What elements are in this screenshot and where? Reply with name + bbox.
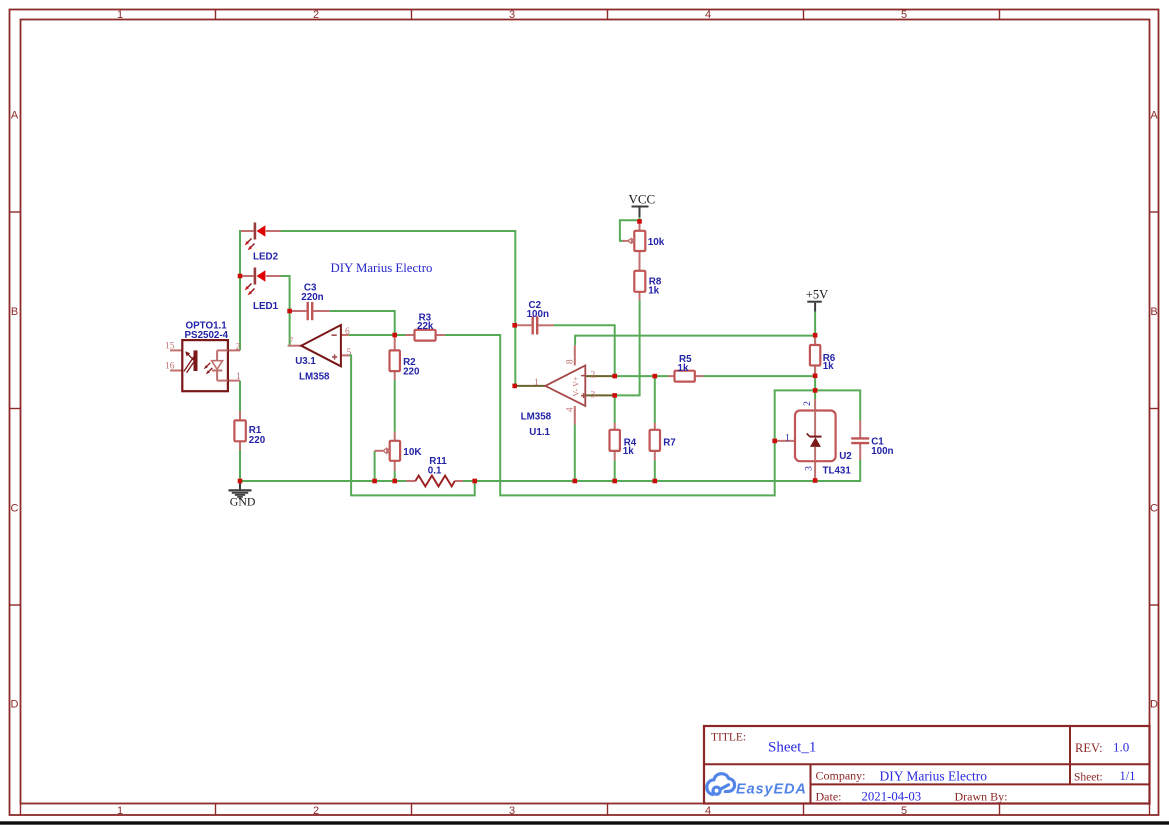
svg-text:10k: 10k — [648, 237, 665, 248]
wire pot 10k top-to-wiper loop — [620, 220, 640, 241]
wire C3 right to R3 node — [330, 311, 395, 335]
resistor R3 — [406, 330, 445, 341]
frame ruler letters left — [11, 110, 19, 711]
svg-text:10K: 10K — [403, 447, 422, 458]
title block outline — [704, 726, 1150, 804]
wire U1.1 pin4 to ground rail — [574, 425, 576, 481]
wire R5 right to R6 bottom node — [704, 375, 816, 377]
wire opto pin1 down to R1 — [239, 381, 241, 411]
svg-text:U1.1: U1.1 — [529, 427, 550, 438]
resistor R1 — [234, 411, 245, 450]
svg-text:U3.1: U3.1 — [295, 356, 316, 367]
frame ruler numbers bottom — [117, 805, 907, 817]
svg-text:1.0: 1.0 — [1113, 740, 1129, 755]
capacitor C2 — [515, 316, 554, 334]
svg-text:2021-04-03: 2021-04-03 — [862, 790, 922, 804]
op-amp U1.1 — [515, 345, 614, 424]
title block divider row1 — [704, 763, 1150, 765]
resistor R11 — [406, 476, 463, 487]
wire ground rail left — [240, 480, 410, 482]
svg-text:1: 1 — [117, 805, 123, 817]
wire U1.1 pin2 node to R5 — [615, 375, 668, 377]
svg-text:3: 3 — [509, 805, 515, 817]
svg-text:Sheet:: Sheet: — [1074, 772, 1103, 784]
svg-text:1k: 1k — [648, 286, 659, 297]
svg-text:5: 5 — [347, 348, 352, 358]
svg-text:3: 3 — [591, 390, 596, 400]
potentiometer 10k — [623, 222, 646, 271]
wire R4 bottom to ground rail — [614, 460, 616, 481]
svg-text:D: D — [11, 699, 19, 711]
title block divider logo column — [810, 764, 812, 803]
title block divider date row — [811, 783, 1150, 785]
resistor R5 — [668, 371, 704, 382]
ground symbol GND — [229, 483, 256, 509]
svg-text:1: 1 — [117, 9, 123, 21]
svg-text:4: 4 — [705, 9, 711, 21]
wire U1.1 pin8 to +5V rail — [575, 336, 815, 346]
wire R4 top — [614, 395, 616, 423]
svg-text:1: 1 — [236, 372, 241, 382]
wire VCC to pot 10k node — [639, 217, 641, 221]
svg-text:VCC: VCC — [629, 192, 656, 207]
wire LED2 anode to U1.1 pin1 column — [281, 231, 516, 386]
svg-text:TITLE:: TITLE: — [711, 732, 746, 744]
shunt regulator U2 TL431 — [775, 399, 836, 479]
wire +5V down to R6 — [814, 311, 816, 345]
wire R3 right to TL431 ref loop — [445, 335, 860, 495]
wire ground rail right — [461, 460, 861, 482]
svg-text:DIY Marius Electro: DIY Marius Electro — [331, 261, 433, 275]
svg-text:3: 3 — [804, 466, 814, 471]
wire R6 bottom to TL431 pin2 node — [814, 366, 816, 399]
svg-text:Drawn By:: Drawn By: — [955, 790, 1008, 804]
wire LED1 anode to C3 node column — [281, 276, 290, 346]
svg-text:EasyEDA: EasyEDA — [736, 782, 807, 798]
svg-text:2: 2 — [313, 805, 319, 817]
svg-text:D: D — [1150, 699, 1158, 711]
svg-text:U2: U2 — [839, 451, 852, 462]
svg-text:0.1: 0.1 — [428, 465, 442, 476]
svg-text:TL431: TL431 — [823, 466, 852, 477]
svg-text:4: 4 — [705, 805, 711, 817]
capacitor C1 — [851, 421, 869, 461]
svg-text:1: 1 — [785, 434, 790, 444]
svg-text:2: 2 — [313, 9, 319, 21]
svg-text:100n: 100n — [527, 309, 549, 320]
svg-text:7: 7 — [289, 337, 294, 347]
svg-text:1k: 1k — [678, 363, 689, 374]
svg-text:DIY Marius Electro: DIY Marius Electro — [880, 769, 988, 784]
capacitor C3 — [290, 302, 330, 320]
svg-text:PS2502-4: PS2502-4 — [185, 330, 229, 341]
svg-text:REV:: REV: — [1075, 741, 1103, 755]
svg-text:220n: 220n — [301, 292, 323, 303]
EasyEDA logo cloud — [707, 774, 735, 795]
resistor R7 — [650, 423, 660, 460]
svg-text:2: 2 — [803, 401, 813, 406]
svg-text:LED1: LED1 — [253, 301, 279, 312]
svg-text:GND: GND — [230, 495, 256, 509]
bottom black bar — [0, 821, 1169, 824]
svg-text:C: C — [11, 503, 19, 515]
svg-text:15: 15 — [165, 341, 175, 351]
resistor R2 — [390, 336, 400, 380]
svg-text:LM358: LM358 — [299, 371, 330, 382]
wire R7 bottom to ground rail — [654, 460, 656, 481]
VCC power symbol — [629, 192, 656, 218]
svg-text:+5V: +5V — [806, 288, 828, 302]
svg-text:R7: R7 — [663, 437, 676, 448]
resistor R6 — [810, 336, 820, 374]
wire U3.1 pin6 to R3 node — [349, 334, 406, 336]
svg-text:V- V+: V- V+ — [572, 376, 581, 396]
wire U1.1 pin3 node to R8 column — [615, 300, 640, 395]
svg-text:8: 8 — [566, 359, 576, 364]
wire R7 top — [654, 376, 656, 423]
svg-text:3: 3 — [509, 9, 515, 21]
svg-text:B: B — [1150, 306, 1157, 318]
title block divider rev column — [1069, 726, 1071, 785]
svg-text:2: 2 — [591, 370, 596, 380]
svg-text:5: 5 — [901, 805, 907, 817]
junction dots — [238, 219, 818, 483]
svg-text:A: A — [1150, 110, 1158, 122]
wire R1 bottom to ground rail — [239, 450, 241, 481]
optocoupler OPTO1.1 — [170, 340, 240, 391]
wire C2 right down to U1.1 pin2 node — [554, 325, 615, 376]
svg-text:1: 1 — [534, 378, 539, 388]
svg-text:C: C — [1150, 503, 1158, 515]
op-amp U3.1 — [288, 325, 349, 366]
svg-text:Sheet_1: Sheet_1 — [768, 740, 816, 756]
svg-text:LED2: LED2 — [253, 252, 279, 263]
resistor R4 — [610, 423, 620, 460]
svg-text:16: 16 — [165, 361, 175, 371]
resistor R8 — [634, 271, 645, 301]
svg-text:1k: 1k — [623, 446, 634, 457]
svg-text:220: 220 — [249, 435, 266, 446]
svg-text:LM358: LM358 — [521, 411, 552, 422]
svg-text:2: 2 — [236, 343, 241, 353]
wire pot 10K bottom to ground rail — [394, 471, 396, 481]
frame ruler numbers top — [117, 9, 907, 21]
svg-text:220: 220 — [403, 366, 420, 377]
wire R2 bottom to pot 10K top — [394, 380, 396, 432]
svg-text:B: B — [11, 306, 18, 318]
svg-text:5: 5 — [901, 9, 907, 21]
wire pot 10K wiper down to ground rail — [374, 451, 376, 481]
svg-text:Date:: Date: — [816, 790, 842, 804]
svg-text:Company:: Company: — [816, 769, 866, 783]
LED1 — [241, 268, 281, 296]
svg-text:22k: 22k — [417, 321, 434, 332]
+5V power symbol — [806, 288, 828, 312]
potentiometer 10K — [375, 432, 401, 471]
svg-text:1k: 1k — [823, 361, 834, 372]
wire LED2 cathode down left rail to opto pin2 — [240, 231, 247, 350]
svg-text:4: 4 — [566, 407, 576, 412]
wire U3.1 pin5 to ground loop — [349, 355, 475, 495]
frame ruler letters right — [1150, 110, 1158, 711]
svg-text:1/1: 1/1 — [1120, 769, 1136, 783]
svg-text:6: 6 — [345, 327, 350, 337]
svg-text:A: A — [11, 110, 19, 122]
LED2 — [241, 223, 281, 251]
svg-text:100n: 100n — [871, 446, 893, 457]
